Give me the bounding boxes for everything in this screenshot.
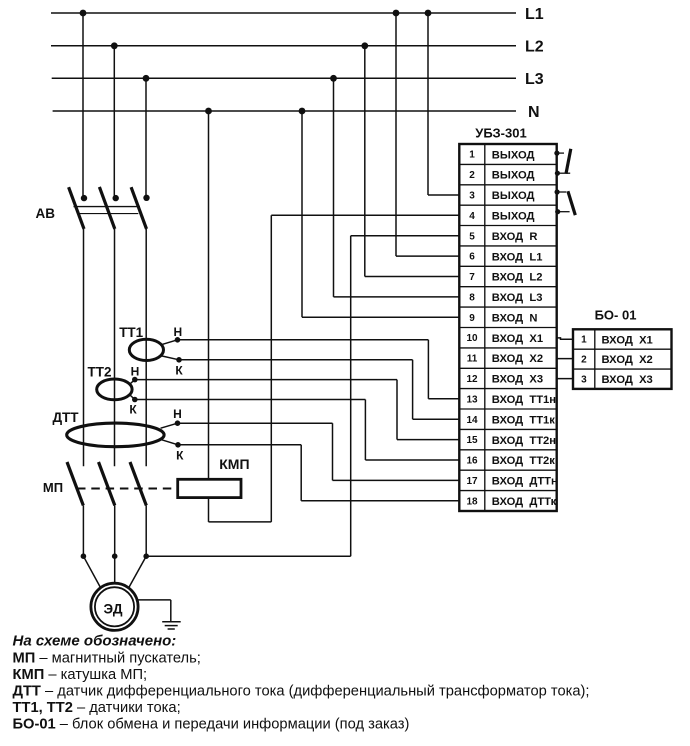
svg-text:5: 5 [469, 231, 475, 242]
svg-text:АВ: АВ [36, 206, 56, 221]
svg-text:ВХОД L3: ВХОД L3 [492, 292, 543, 304]
svg-text:7: 7 [469, 272, 475, 283]
svg-text:6: 6 [469, 252, 475, 263]
svg-text:ТТ2: ТТ2 [87, 364, 111, 379]
svg-text:18: 18 [466, 496, 478, 507]
svg-text:9: 9 [469, 313, 475, 324]
svg-text:2: 2 [469, 170, 475, 181]
svg-text:14: 14 [466, 415, 478, 426]
svg-text:ВХОД Х2: ВХОД Х2 [602, 354, 653, 366]
svg-text:L3: L3 [525, 71, 544, 88]
svg-text:КМП: КМП [219, 456, 249, 472]
svg-text:МП – магнитный пускатель;: МП – магнитный пускатель; [13, 651, 201, 667]
svg-text:ДТТ – датчик дифференциального: ДТТ – датчик дифференциального тока (диф… [13, 684, 590, 700]
svg-text:На схеме обозначено:: На схеме обозначено: [13, 633, 177, 650]
svg-text:4: 4 [469, 211, 475, 222]
svg-text:ТТ1, ТТ2 – датчики тока;: ТТ1, ТТ2 – датчики тока; [13, 700, 181, 716]
svg-text:ВХОД L1: ВХОД L1 [492, 251, 543, 263]
svg-text:ВХОД N: ВХОД N [492, 312, 538, 324]
svg-text:N: N [528, 104, 540, 121]
svg-text:ТТ1: ТТ1 [119, 325, 143, 340]
svg-text:К: К [175, 363, 183, 377]
svg-text:ВХОД Х2: ВХОД Х2 [492, 353, 543, 365]
svg-text:10: 10 [466, 333, 478, 344]
svg-text:ДТТ: ДТТ [52, 410, 79, 425]
svg-text:БО- 01: БО- 01 [595, 308, 637, 323]
svg-text:ВЫХОД: ВЫХОД [492, 170, 535, 182]
svg-text:ВЫХОД: ВЫХОД [492, 190, 535, 202]
svg-text:15: 15 [466, 435, 478, 446]
svg-text:2: 2 [581, 355, 587, 366]
svg-text:1: 1 [469, 150, 475, 161]
svg-text:ВХОД Х1: ВХОД Х1 [602, 334, 653, 346]
svg-text:УБЗ-301: УБЗ-301 [475, 126, 526, 141]
svg-text:ВХОД ТТ1к: ВХОД ТТ1к [492, 414, 555, 426]
svg-text:ВХОД Х1: ВХОД Х1 [492, 333, 543, 345]
svg-text:8: 8 [469, 292, 475, 303]
svg-text:17: 17 [466, 476, 478, 487]
svg-text:Н: Н [173, 407, 182, 421]
svg-text:L2: L2 [525, 39, 544, 56]
svg-text:16: 16 [466, 456, 478, 467]
svg-text:ВЫХОД: ВЫХОД [492, 211, 535, 223]
svg-text:К: К [129, 402, 137, 416]
svg-text:ВХОД ТТ2н: ВХОД ТТ2н [492, 435, 556, 447]
svg-text:11: 11 [467, 354, 478, 365]
svg-text:L1: L1 [525, 6, 544, 23]
svg-text:ВЫХОД: ВЫХОД [492, 149, 535, 161]
svg-text:БО-01 – блок обмена и передачи: БО-01 – блок обмена и передачи информаци… [13, 717, 410, 733]
svg-text:ВХОД ДТТк: ВХОД ДТТк [492, 496, 557, 508]
svg-text:ВХОД ДТТн: ВХОД ДТТн [492, 476, 558, 488]
svg-text:МП: МП [43, 480, 63, 495]
svg-text:3: 3 [581, 375, 587, 386]
svg-text:ВХОД ТТ2к: ВХОД ТТ2к [492, 455, 555, 467]
svg-text:ВХОД Х3: ВХОД Х3 [492, 374, 543, 386]
svg-text:12: 12 [466, 374, 478, 385]
svg-text:3: 3 [469, 191, 475, 202]
svg-text:13: 13 [466, 394, 478, 405]
svg-text:ВХОД Х3: ВХОД Х3 [602, 374, 653, 386]
svg-text:ВХОД L2: ВХОД L2 [492, 272, 543, 284]
svg-text:К: К [176, 449, 184, 463]
svg-text:ЭД: ЭД [104, 602, 123, 617]
svg-text:1: 1 [581, 335, 587, 346]
svg-text:ВХОД ТТ1н: ВХОД ТТ1н [492, 394, 556, 406]
svg-text:ВХОД R: ВХОД R [492, 231, 538, 243]
svg-text:Н: Н [131, 365, 140, 379]
svg-text:КМП – катушка МП;: КМП – катушка МП; [13, 667, 148, 683]
svg-text:Н: Н [173, 325, 182, 339]
